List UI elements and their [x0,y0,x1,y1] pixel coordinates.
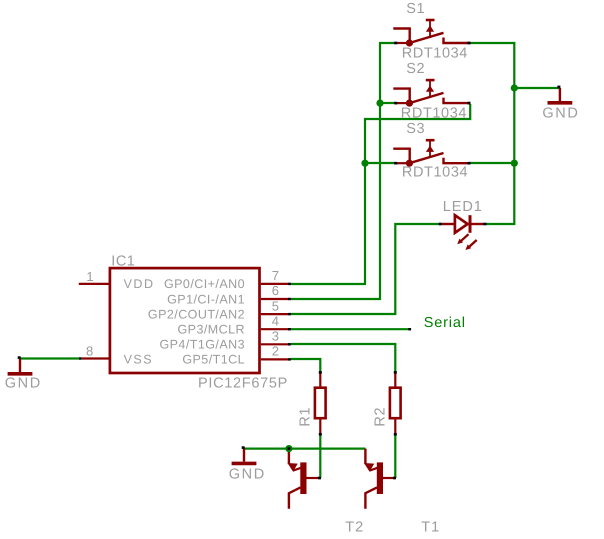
svg-text:S2: S2 [406,61,425,77]
svg-text:R1: R1 [298,407,314,427]
svg-text:RDT1034: RDT1034 [401,105,467,121]
svg-text:RDT1034: RDT1034 [402,46,468,62]
svg-text:GP0/CI+/AN0: GP0/CI+/AN0 [164,277,245,291]
svg-text:2: 2 [272,344,279,359]
svg-text:7: 7 [272,268,279,283]
svg-text:4: 4 [272,313,279,328]
svg-text:GP5/T1CL: GP5/T1CL [182,353,245,367]
svg-text:PIC12F675P: PIC12F675P [198,376,288,392]
svg-text:S1: S1 [406,1,425,17]
svg-text:1: 1 [86,269,93,284]
svg-text:3: 3 [272,329,279,344]
svg-text:R2: R2 [373,407,389,427]
svg-text:5: 5 [272,298,279,313]
svg-text:GP3/MCLR: GP3/MCLR [177,323,245,337]
svg-text:GND: GND [229,466,266,482]
svg-text:T2: T2 [345,519,364,535]
svg-text:GP4/T1G/AN3: GP4/T1G/AN3 [159,338,245,352]
svg-text:VSS: VSS [124,352,154,366]
svg-text:6: 6 [272,283,279,298]
svg-text:GP2/COUT/AN2: GP2/COUT/AN2 [148,307,245,321]
svg-text:GND: GND [5,376,42,392]
svg-text:IC1: IC1 [111,254,135,270]
svg-text:VDD: VDD [124,277,155,291]
svg-text:Serial: Serial [424,315,466,331]
svg-text:GND: GND [542,105,579,121]
svg-text:8: 8 [86,343,93,358]
svg-text:GP1/CI-/AN1: GP1/CI-/AN1 [167,292,245,306]
svg-text:LED1: LED1 [443,199,483,215]
svg-text:S3: S3 [406,121,425,137]
svg-text:T1: T1 [421,519,440,535]
svg-text:RDT1034: RDT1034 [402,165,468,181]
